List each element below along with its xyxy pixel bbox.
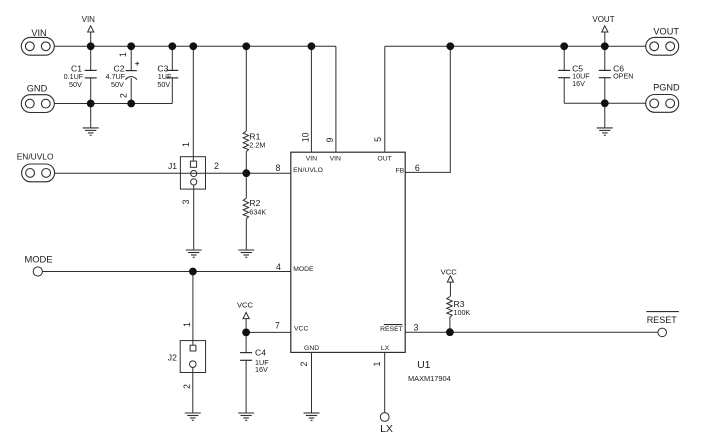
svg-text:100K: 100K	[454, 308, 471, 317]
svg-text:50V: 50V	[69, 80, 82, 89]
svg-text:VIN: VIN	[31, 28, 46, 38]
connector J2	[168, 322, 206, 389]
svg-text:EN/UVLO: EN/UVLO	[17, 152, 54, 162]
node R1 top	[242, 42, 250, 50]
node RESET terminal	[646, 312, 679, 337]
svg-text:4: 4	[276, 262, 281, 272]
svg-text:7: 7	[275, 321, 280, 331]
connector GND	[21, 83, 54, 112]
wire VIN rail top	[54, 45, 336, 47]
svg-text:8: 8	[275, 163, 280, 173]
node C5 top	[560, 42, 568, 50]
node MODE junction	[189, 268, 197, 276]
svg-text:50V: 50V	[111, 80, 124, 89]
ground below J1	[186, 250, 202, 257]
wire FB (pin 6) up to VOUT rail	[405, 46, 450, 172]
connector EN/UVLO	[17, 152, 55, 182]
svg-text:1: 1	[372, 361, 382, 366]
svg-text:6: 6	[415, 163, 420, 173]
wire J1 pin1 drop	[192, 46, 194, 161]
svg-text:2: 2	[214, 161, 219, 171]
resistor R1	[243, 46, 265, 173]
svg-text:VOUT: VOUT	[592, 15, 614, 24]
svg-text:VIN: VIN	[82, 15, 96, 24]
wire GND rail bottom-left	[54, 103, 172, 105]
svg-text:OUT: OUT	[377, 155, 391, 162]
node LX terminal	[380, 413, 393, 436]
svg-text:3: 3	[414, 322, 419, 332]
svg-text:1: 1	[118, 52, 128, 57]
resistor R2	[243, 173, 266, 250]
wire PGND rail bottom-right	[564, 102, 646, 104]
wire J1 pin3 to ground	[193, 185, 195, 250]
svg-text:MODE: MODE	[293, 266, 314, 273]
node C2 bottom	[127, 100, 135, 108]
svg-text:16V: 16V	[255, 365, 268, 374]
power flag VOUT	[592, 15, 614, 46]
svg-text:RESET: RESET	[380, 326, 403, 333]
node VOUT flag	[601, 42, 609, 50]
wire IC pin 10 drop	[310, 46, 312, 152]
connector VIN	[21, 28, 54, 55]
svg-text:2: 2	[182, 384, 192, 389]
power flag VCC (right)	[441, 268, 458, 283]
node J1 top	[189, 42, 197, 50]
svg-text:C4: C4	[255, 348, 266, 358]
svg-text:2: 2	[119, 93, 129, 98]
svg-text:EN/UVLO: EN/UVLO	[293, 167, 323, 174]
svg-text:9: 9	[325, 137, 335, 142]
svg-text:50V: 50V	[157, 80, 170, 89]
svg-text:R2: R2	[249, 198, 260, 208]
svg-text:2.2M: 2.2M	[249, 140, 265, 149]
wire IC pin 1 (LX) down	[384, 352, 386, 412]
svg-text:MODE: MODE	[24, 253, 52, 264]
svg-text:GND: GND	[304, 345, 319, 352]
capacitor C3	[157, 46, 178, 103]
power flag VCC (left)	[237, 300, 254, 332]
capacitor C5	[558, 46, 590, 103]
wire MODE net	[42, 271, 290, 273]
node pin10 top	[308, 42, 316, 50]
svg-text:1: 1	[181, 142, 191, 147]
node EN/UVLO junction	[242, 169, 250, 177]
ground below PGND rail	[597, 103, 613, 135]
capacitor C6	[599, 46, 634, 103]
wire J2 pin2 to ground	[192, 368, 194, 413]
node FB top	[446, 42, 454, 50]
svg-text:VOUT: VOUT	[653, 26, 679, 36]
capacitor C4	[240, 332, 269, 412]
ground below J2	[185, 413, 201, 420]
ground below R2	[238, 250, 254, 257]
capacitor C1	[64, 46, 97, 103]
wire VOUT rail top-right	[385, 45, 646, 47]
ground below GND rail	[83, 104, 99, 136]
wire IC pin 5 (OUT) up	[384, 46, 386, 152]
node C1 bottom	[87, 100, 95, 108]
ground below C4	[238, 413, 254, 420]
svg-text:1: 1	[182, 322, 192, 327]
svg-text:FB: FB	[396, 167, 405, 174]
svg-text:10: 10	[300, 132, 310, 142]
connector VOUT	[646, 26, 680, 55]
svg-text:J2: J2	[168, 352, 177, 362]
svg-text:VCC: VCC	[237, 300, 254, 309]
op-amp U1 (IC MAXM17904)	[291, 152, 451, 383]
wire IC pin 2 (GND) to ground	[311, 352, 313, 412]
connector MODE	[24, 253, 52, 276]
wire EN/UVLO net	[55, 172, 291, 174]
node C6 bottom	[601, 99, 609, 107]
node RESET junction	[446, 328, 454, 336]
svg-text:U1: U1	[417, 359, 431, 371]
svg-text:VIN: VIN	[306, 155, 317, 162]
svg-text:3: 3	[181, 199, 191, 204]
svg-text:VCC: VCC	[441, 268, 458, 277]
node VIN-C1	[87, 42, 95, 50]
node VCC junction	[242, 329, 250, 337]
wire J2 pin1 drop	[192, 272, 194, 346]
connector J1	[168, 142, 219, 205]
capacitor C2 (polarized)	[106, 46, 140, 103]
svg-text:GND: GND	[27, 83, 48, 93]
connector PGND	[646, 83, 680, 113]
svg-text:VIN: VIN	[330, 155, 341, 162]
svg-text:VCC: VCC	[294, 326, 308, 333]
svg-text:634K: 634K	[249, 207, 266, 216]
svg-text:J1: J1	[168, 161, 177, 171]
svg-text:LX: LX	[380, 423, 393, 435]
node C3 top	[168, 42, 176, 50]
svg-text:PGND: PGND	[653, 83, 680, 93]
svg-text:OPEN: OPEN	[613, 72, 633, 81]
node C2 top	[127, 42, 135, 50]
svg-text:RESET: RESET	[647, 315, 678, 325]
resistor R3	[447, 282, 471, 332]
power flag VIN	[82, 15, 96, 46]
svg-text:5: 5	[373, 137, 383, 142]
svg-text:MAXM17904: MAXM17904	[408, 374, 451, 383]
wire RESET net (pin 3)	[405, 331, 658, 333]
svg-text:LX: LX	[381, 345, 390, 352]
svg-text:16V: 16V	[572, 79, 585, 88]
wire IC pin 9 drop	[335, 46, 337, 152]
svg-text:2: 2	[299, 361, 309, 366]
wire VCC to pin 7	[246, 331, 291, 333]
ground below IC GND pin	[304, 413, 320, 420]
